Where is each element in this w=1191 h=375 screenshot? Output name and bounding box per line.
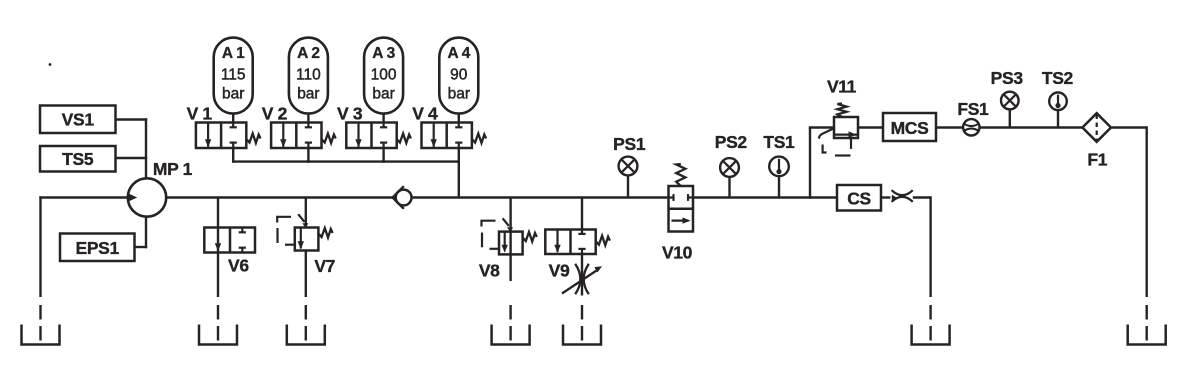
svg-text:V7: V7 <box>314 256 335 276</box>
pressure switch PS1 <box>619 157 638 176</box>
svg-text:V6: V6 <box>228 256 249 276</box>
svg-text:V 3: V 3 <box>337 104 363 124</box>
svg-text:FS1: FS1 <box>957 99 989 119</box>
tank symbol at x=582 (T5) <box>563 325 601 345</box>
svg-text:TS5: TS5 <box>62 149 94 169</box>
svg-text:F1: F1 <box>1087 150 1107 170</box>
spring of V7 <box>318 228 332 238</box>
wire: VS1 to pump junction <box>116 118 148 120</box>
svg-text:A 2: A 2 <box>297 45 320 62</box>
temperature sensor TS1 <box>769 157 789 177</box>
wire: main line (left of pump) <box>39 196 128 199</box>
svg-text:V 2: V 2 <box>262 104 288 124</box>
wire: F1 to right drop <box>1111 126 1147 128</box>
spring of valve V3 <box>397 134 411 144</box>
valve V6 (2/2) <box>204 228 255 253</box>
wire: TS2 stub <box>1057 110 1059 128</box>
flow switch FS1 <box>963 119 979 135</box>
spring of V10 <box>676 164 685 186</box>
wire: dashed drain line to tank at x=930.6 <box>929 305 931 342</box>
wire: dashed drain line to tank at x=510.6 <box>509 305 511 342</box>
wire: TS5 to pump junction <box>116 157 148 159</box>
wire: CS to orifice <box>881 196 891 198</box>
svg-text:A 3: A 3 <box>372 45 395 62</box>
wire: TS1 stub <box>778 176 780 198</box>
wire: main line left end to tank drop <box>39 196 41 297</box>
tank symbol at x=930.6 (T6) <box>912 325 950 345</box>
svg-text:TS1: TS1 <box>763 132 795 152</box>
tank symbol at x=40.5 (T1) <box>22 325 60 345</box>
svg-text:100: 100 <box>371 67 397 84</box>
tank symbol at x=1146.7 (T7) <box>1128 325 1166 345</box>
pilot arrow into V7 <box>298 214 304 222</box>
pressure switch PS3 <box>1001 92 1019 110</box>
wire: dashed drain line to tank at x=305.8 <box>305 305 307 342</box>
svg-text:PS3: PS3 <box>991 68 1024 88</box>
wire: main line up to V11 <box>809 128 811 199</box>
wire: FS1 to F1 <box>980 126 1083 128</box>
svg-text:bar: bar <box>222 86 244 103</box>
wire: valve V4 to rail stub <box>458 148 460 163</box>
wire: main line check valve to V10 <box>412 196 669 199</box>
tank symbol at x=218 (T2) <box>199 325 237 345</box>
valve V3 (2/2 shut-off) <box>346 123 396 149</box>
wire: accumulator rail <box>233 160 459 162</box>
spring of V11 <box>837 104 846 118</box>
wire: sensors down to pump MP1 <box>145 118 147 179</box>
svg-text:V9: V9 <box>549 261 570 281</box>
svg-text:V8: V8 <box>479 261 500 281</box>
wire: V9 to throttle to tank <box>581 254 583 296</box>
wire: dashed drain line to tank at x=40.5 <box>39 305 41 342</box>
wire: valve V3 to rail stub <box>382 148 384 163</box>
wire: EPS1 to pump bottom <box>135 246 148 248</box>
accumulator A4 (90 bar) <box>439 38 478 114</box>
pilot of V11 <box>850 138 852 149</box>
spring of V9 <box>596 236 610 246</box>
stray dot mark <box>49 63 52 66</box>
wire: MCS to FS1 <box>936 126 963 128</box>
svg-text:115: 115 <box>221 67 246 84</box>
svg-text:TS2: TS2 <box>1042 68 1074 88</box>
wire: main line V10 to CS <box>693 196 837 199</box>
accumulator A3 (100 bar) <box>364 38 403 114</box>
variable throttle below V9 <box>575 264 580 294</box>
wire: dashed drain line to tank at x=218 <box>217 305 219 342</box>
svg-text:EPS1: EPS1 <box>76 238 120 258</box>
valve V4 (2/2 shut-off) <box>422 123 472 149</box>
pilot dashed line of V7 <box>277 217 291 223</box>
svg-text:V10: V10 <box>662 243 693 263</box>
svg-text:VS1: VS1 <box>62 110 95 130</box>
svg-text:A 4: A 4 <box>447 45 470 62</box>
wire: main line down through V6 to tank <box>217 198 219 298</box>
wire: dashed drain line to tank at x=582 <box>581 305 583 342</box>
valve V1 (2/2 shut-off) <box>196 123 246 149</box>
pump MP1 <box>128 178 166 216</box>
spring of V8 <box>523 232 537 242</box>
temperature sensor TS2 <box>1049 93 1067 111</box>
wire: valve V1 to rail stub <box>232 148 234 163</box>
svg-text:A 1: A 1 <box>222 45 245 62</box>
wire: main line pump to check valve <box>166 196 393 199</box>
wire: main line down to V7 <box>305 198 307 228</box>
sensor box VS1 <box>40 106 116 134</box>
wire: accumulator A3 stem <box>382 113 384 123</box>
control box CS <box>837 185 881 211</box>
wire: dashed drain line to tank at x=1146.7 <box>1145 305 1147 342</box>
svg-text:bar: bar <box>372 86 394 103</box>
spring of valve V4 <box>472 134 486 144</box>
svg-text:CS: CS <box>847 189 871 209</box>
sensor box EPS1 <box>60 234 135 262</box>
orifice restrictor <box>892 190 913 195</box>
valve V2 (2/2 shut-off) <box>271 123 321 149</box>
wire: PS1 stub <box>627 175 629 197</box>
control box MCS <box>883 113 936 141</box>
wire: PS2 stub <box>728 177 730 198</box>
svg-text:V 1: V 1 <box>187 104 213 124</box>
sensor box TS5 <box>40 146 116 172</box>
wire: valve V2 to rail stub <box>307 148 309 163</box>
wire: V11 to MCS <box>858 126 883 128</box>
wire: main line down to V9 <box>581 198 583 230</box>
wire: main line down through V8 <box>509 198 511 282</box>
spring of valve V2 <box>322 134 336 144</box>
wire: accumulator A4 stem <box>458 113 460 123</box>
wire: orifice to tank drop <box>913 196 931 198</box>
svg-text:bar: bar <box>297 86 319 103</box>
wire: accumulator A1 stem <box>232 113 234 123</box>
wire: rail drop to main line <box>458 162 460 198</box>
spring of valve V1 <box>246 134 260 144</box>
accumulator A1 (115 bar) <box>214 38 253 114</box>
relief valve V7 <box>295 228 319 251</box>
pilot dashed line of V8 <box>482 221 496 227</box>
svg-text:V11: V11 <box>827 77 857 97</box>
accumulator A2 (110 bar) <box>289 38 328 114</box>
relief valve V11 <box>834 117 858 138</box>
svg-text:MP 1: MP 1 <box>153 159 193 179</box>
svg-text:90: 90 <box>450 67 468 84</box>
valve V9 (2/2) <box>545 230 595 255</box>
filter F1 <box>1082 113 1111 142</box>
valve V10 (2/2 on main line) <box>669 186 694 232</box>
wire: PS3 stub <box>1009 109 1011 128</box>
svg-text:PS1: PS1 <box>613 134 646 154</box>
tank symbol at x=510.6 (T4) <box>492 325 530 345</box>
tank symbol at x=305.8 (T3) <box>287 325 325 345</box>
relief valve V8 <box>499 232 523 255</box>
pilot arrow into V8 <box>503 218 509 226</box>
svg-text:bar: bar <box>448 86 470 103</box>
pressure switch PS2 <box>720 158 739 177</box>
wire: V7 to tank <box>305 251 307 298</box>
svg-text:V 4: V 4 <box>412 104 438 124</box>
wire: accumulator A2 stem <box>307 113 309 123</box>
svg-text:PS2: PS2 <box>715 132 748 152</box>
svg-text:MCS: MCS <box>891 118 929 138</box>
check valve <box>396 190 412 206</box>
svg-text:110: 110 <box>296 67 321 84</box>
